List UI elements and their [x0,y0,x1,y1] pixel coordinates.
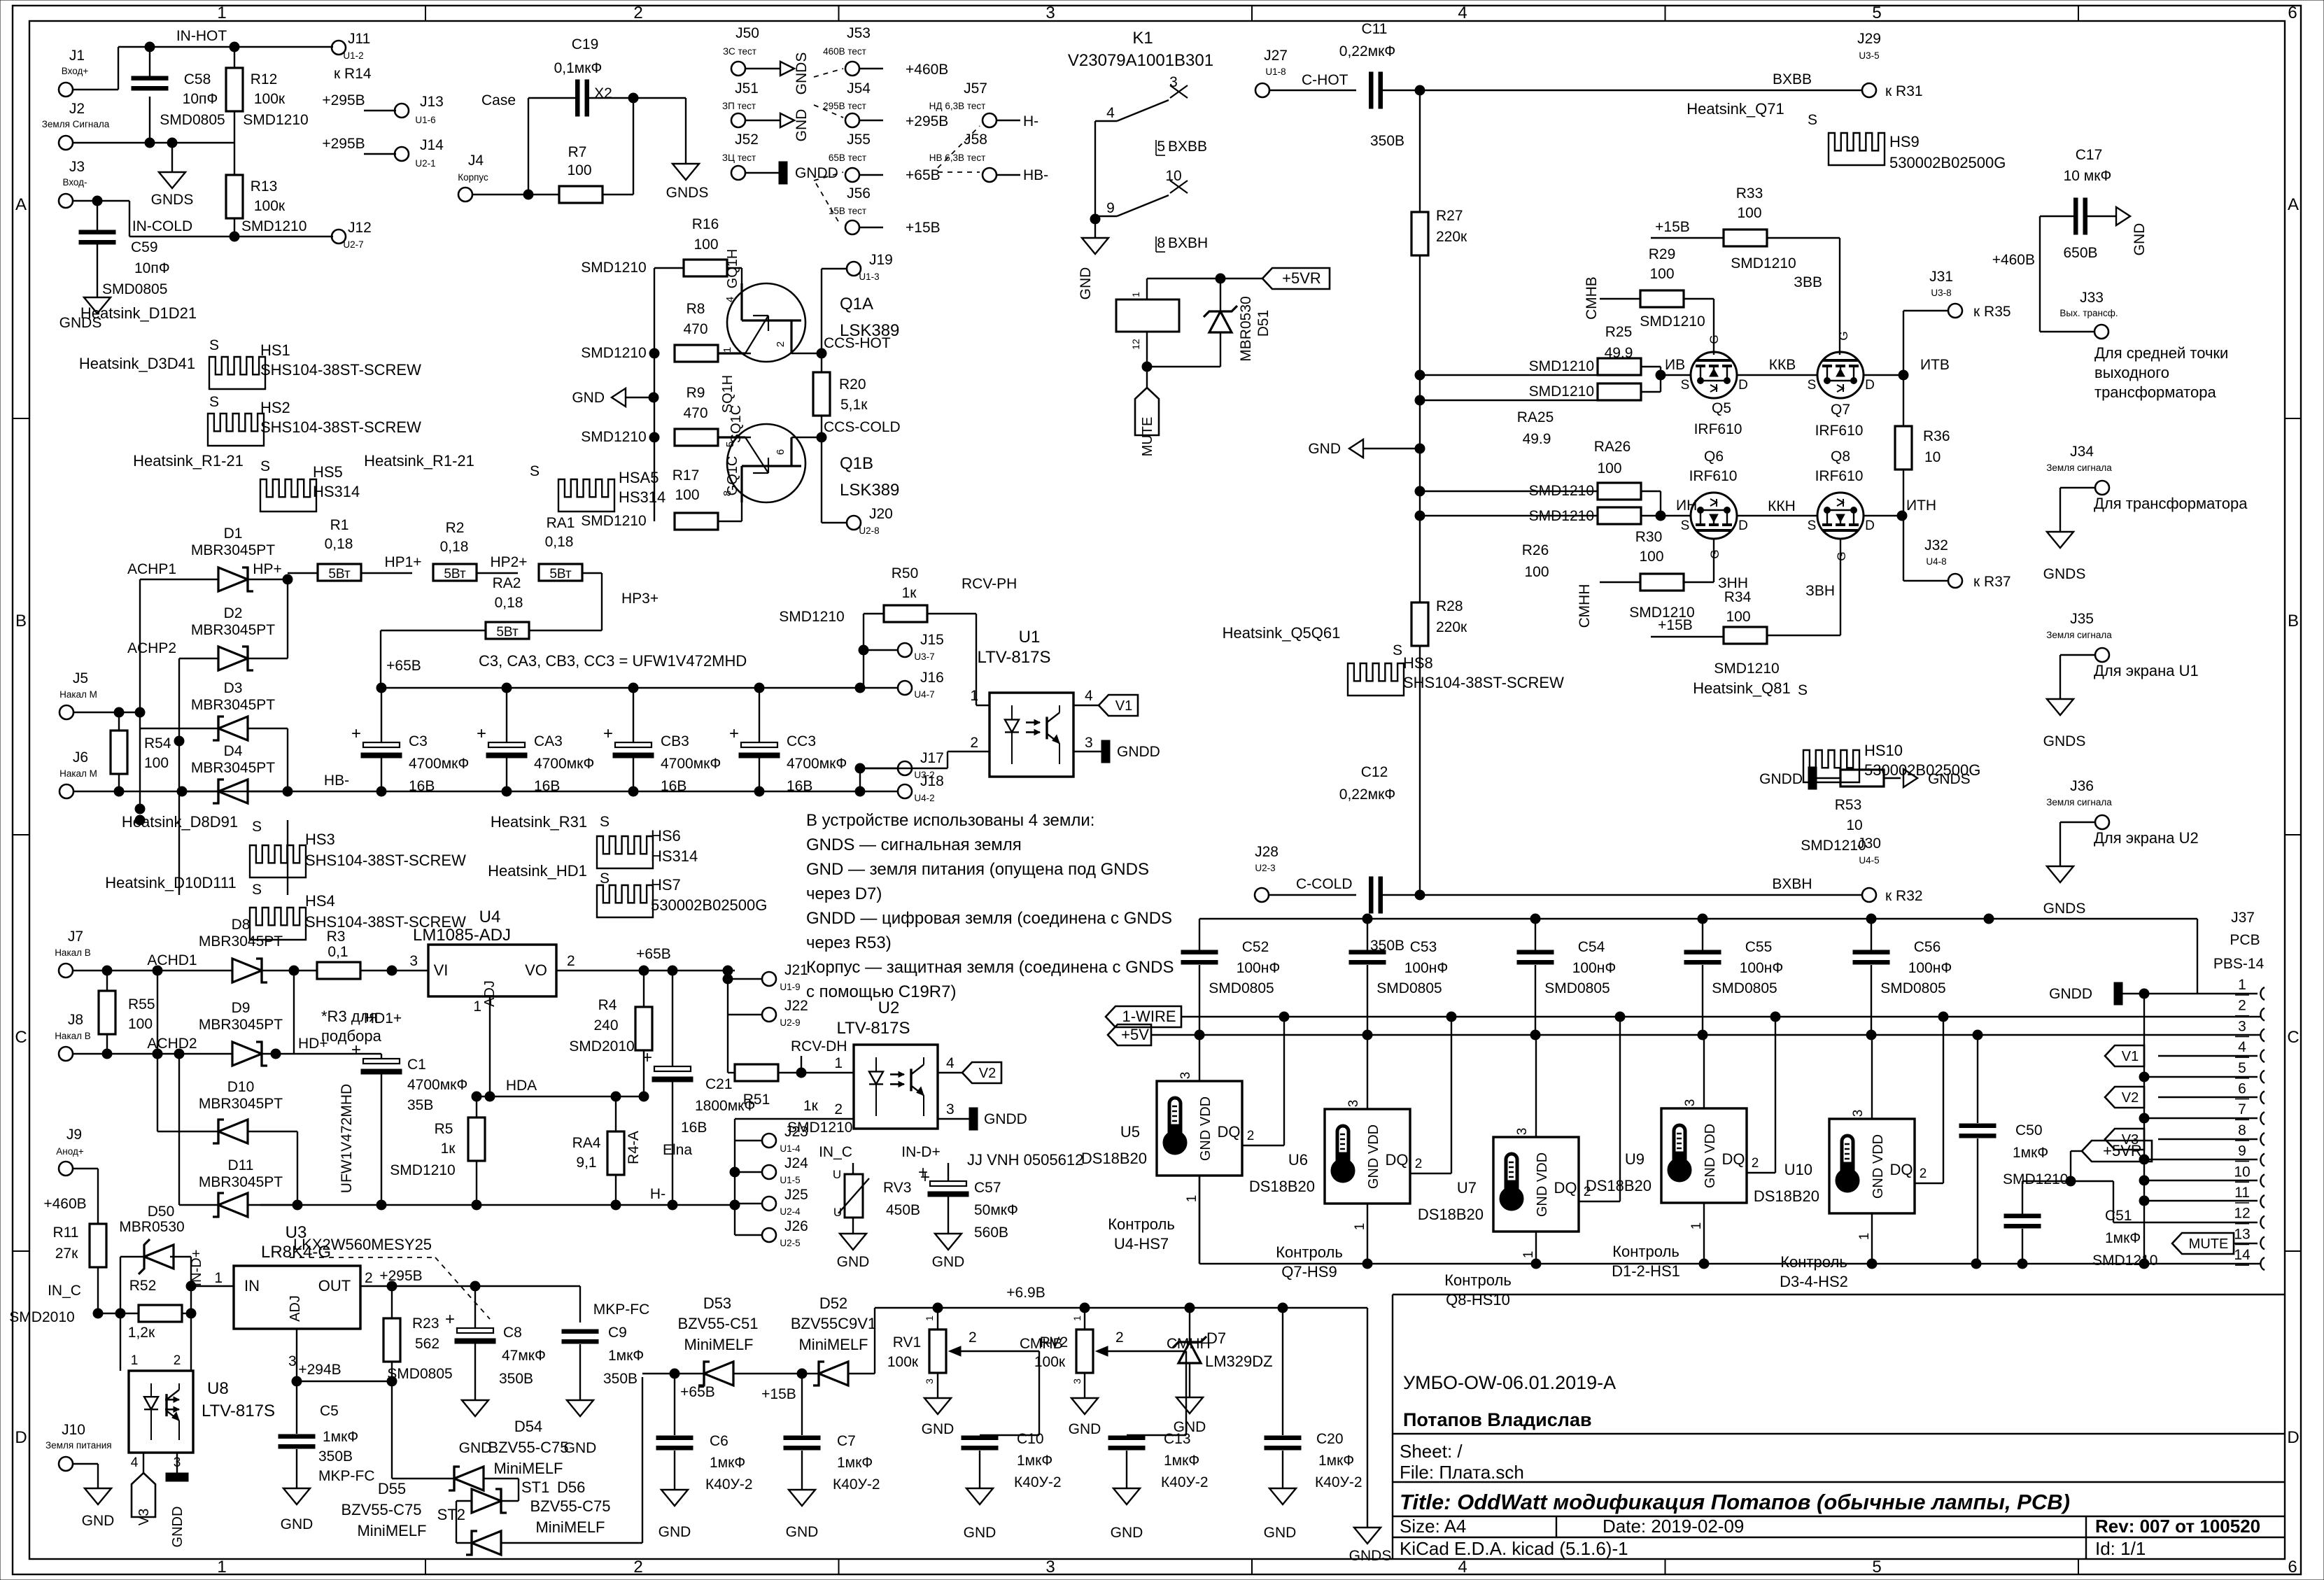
svg-text:UFW1V472MHD: UFW1V472MHD [339,1084,355,1193]
wire pin 7 [2144,1117,2258,1119]
svg-text:MBR0530: MBR0530 [119,1219,184,1235]
svg-text:16В: 16В [409,778,435,794]
svg-text:SHS104-38ST-SCREW: SHS104-38ST-SCREW [1403,674,1564,691]
svg-text:J18: J18 [920,773,944,789]
svg-text:4: 4 [1106,105,1115,121]
svg-text:4700мкФ: 4700мкФ [661,756,721,772]
svg-text:R16: R16 [692,216,719,232]
svg-text:MBR3045PT: MBR3045PT [199,933,283,950]
svg-text:U4-2: U4-2 [914,793,934,803]
resistor R55 [99,991,115,1034]
ground GND [924,1398,951,1414]
svg-text:BXBH: BXBH [1168,235,1208,251]
svg-text:SMD1210: SMD1210 [1529,508,1594,524]
varistor RV3 [845,1174,863,1218]
wire [120,1257,121,1313]
svg-text:Title: OddWatt модификация Пот: Title: OddWatt модификация Потапов (обыч… [1400,1490,2070,1514]
svg-text:СМНН: СМНН [1577,584,1593,628]
svg-text:D51: D51 [1255,310,1272,337]
svg-text:IRF610: IRF610 [1694,421,1742,437]
svg-text:SMD0805: SMD0805 [1880,980,1945,996]
svg-text:G: G [1707,334,1721,344]
resistor RA4 [607,1131,624,1175]
svg-text:Q8-HS10: Q8-HS10 [1446,1291,1510,1309]
svg-text:SMD1210: SMD1210 [581,429,646,445]
svg-text:49.9: 49.9 [1523,431,1551,447]
svg-text:+15В: +15В [1655,219,1690,235]
svg-text:ACHD2: ACHD2 [147,1036,197,1052]
svg-text:100к: 100к [1034,1354,1066,1370]
svg-text:4: 4 [946,1055,955,1071]
svg-text:RA4: RA4 [572,1135,601,1151]
wire bus [1419,449,1421,602]
transistor Q1A [727,283,805,362]
svg-text:+: + [729,724,739,743]
svg-text:J52: J52 [735,132,759,148]
svg-text:J6: J6 [73,749,88,766]
resistor R4 [635,1007,652,1050]
svg-text:GND: GND [659,1524,691,1540]
svg-text:1мкФ: 1мкФ [323,1429,358,1445]
ground GND [1071,1398,1098,1414]
svg-text:SMD1210: SMD1210 [1801,838,1866,854]
svg-text:J21: J21 [784,962,808,978]
svg-text:2: 2 [633,1558,642,1577]
diode bottom ST2 [472,1531,501,1555]
wire [860,687,898,689]
net flag V2 pin6 [2105,1087,2144,1108]
svg-text:100к: 100к [254,91,286,107]
svg-text:J4: J4 [468,153,484,169]
svg-text:НД 6,3В тест: НД 6,3В тест [929,101,986,111]
svg-text:47мкФ: 47мкФ [502,1348,546,1364]
optocoupler U1 [990,693,1073,777]
svg-text:D3: D3 [224,680,243,696]
svg-text:+460В: +460В [1992,252,2035,268]
svg-text:J16: J16 [920,670,944,686]
net flag V1 pin4 [2105,1045,2144,1066]
svg-text:CCS-COLD: CCS-COLD [824,419,901,435]
svg-text:GND VDD: GND VDD [1703,1124,1718,1188]
svg-text:BZV55-C75: BZV55-C75 [488,1439,569,1456]
wire BXBB [1420,90,1862,91]
svg-text:SMD0805: SMD0805 [1712,980,1777,996]
svg-text:IN-COLD: IN-COLD [132,218,192,234]
svg-text:GND: GND [1264,1525,1297,1541]
svg-text:SHS104-38ST-SCREW: SHS104-38ST-SCREW [260,418,421,436]
svg-text:Накал В: Накал В [55,1031,91,1041]
svg-text:5: 5 [1157,139,1165,155]
junction [1362,914,1372,924]
svg-text:GNDD: GNDD [1759,771,1803,787]
resistor R5 [468,1117,485,1161]
connector J24 [762,1165,776,1179]
svg-text:350В: 350В [1370,133,1404,149]
svg-text:Н-: Н- [650,1186,665,1202]
svg-text:MBR3045PT: MBR3045PT [191,760,275,776]
svg-text:D55: D55 [378,1480,406,1497]
svg-text:U2-5: U2-5 [780,1238,800,1248]
svg-text:SHS104-38ST-SCREW: SHS104-38ST-SCREW [305,852,466,869]
svg-text:Потапов Владислав: Потапов Владислав [1403,1409,1592,1430]
svg-text:LKX2W560MESY25: LKX2W560MESY25 [293,1236,432,1253]
svg-text:D9: D9 [232,1000,251,1016]
svg-text:R3: R3 [327,929,346,945]
svg-text:GNDS: GNDS [2043,733,2086,749]
wire GNDD top rail [1199,918,2197,919]
svg-text:Контроль: Контроль [1276,1243,1343,1261]
svg-text:SMD0805: SMD0805 [102,281,167,297]
svg-text:3: 3 [2238,1018,2246,1034]
svg-text:J14: J14 [420,137,444,153]
diode middle ST1 [472,1489,501,1513]
svg-text:GND VDD: GND VDD [1366,1124,1381,1189]
connector J22 [762,1008,776,1022]
svg-text:R54: R54 [144,735,171,752]
svg-text:GNDD — цифровая земля (соедине: GNDD — цифровая земля (соединена с GNDS [806,909,1172,928]
svg-text:350В: 350В [603,1371,638,1387]
svg-text:S: S [1681,519,1690,533]
svg-text:ADJ: ADJ [288,1295,303,1322]
svg-text:HS314: HS314 [313,483,360,500]
svg-text:D10: D10 [227,1079,255,1095]
capacitor C8 [474,1286,476,1328]
svg-text:C11: C11 [1362,21,1388,37]
svg-text:V23079A1001B301: V23079A1001B301 [1068,51,1213,70]
svg-text:C54: C54 [1578,939,1605,955]
svg-text:J57: J57 [964,80,987,97]
svg-text:SMD0805: SMD0805 [387,1366,452,1382]
wire 65B row [642,1373,704,1374]
ground GNDS [1354,1528,1381,1544]
svg-text:3: 3 [1683,1099,1698,1107]
svg-text:SMD2010: SMD2010 [9,1309,74,1325]
svg-text:+460В: +460В [906,62,948,78]
svg-text:DQ: DQ [1890,1161,1913,1178]
svg-text:+5V: +5V [1121,1026,1149,1043]
wire pin 5 [2144,1076,2258,1078]
dashed link [938,126,980,168]
svg-text:R5: R5 [435,1121,453,1137]
junction [1415,85,1425,95]
wire to J32 [1903,516,1904,581]
svg-text:HS5: HS5 [313,463,343,481]
svg-text:J22: J22 [784,998,808,1014]
svg-text:к R32: к R32 [1885,888,1923,904]
svg-text:к R31: к R31 [1885,83,1923,99]
svg-text:D: D [1865,378,1875,393]
svg-text:C1: C1 [407,1057,426,1073]
wire [1146,278,1148,299]
ground GND [1269,1488,1296,1504]
svg-text:R50: R50 [892,565,919,581]
junction 1wire [1279,1012,1289,1022]
svg-text:HP+: HP+ [253,561,281,577]
svg-text:BZV55C9V1: BZV55C9V1 [791,1315,876,1332]
svg-text:Накал М: Накал М [59,689,97,700]
resistor R25 [1598,358,1641,375]
svg-text:+: + [920,1168,930,1187]
svg-text:DQ: DQ [1218,1123,1241,1141]
svg-text:Вых. трансф.: Вых. трансф. [2059,308,2118,318]
svg-text:GND: GND [82,1513,115,1529]
capacitor C9 [562,1329,598,1334]
svg-text:U1-9: U1-9 [780,982,800,992]
wire riser [2143,994,2145,1264]
svg-text:GND: GND [1111,1525,1143,1541]
svg-text:12: 12 [1130,339,1141,350]
svg-text:16В: 16В [681,1120,707,1136]
svg-text:GND: GND [1078,267,1094,300]
svg-text:4: 4 [1458,1558,1467,1577]
ground GND [85,1488,111,1504]
svg-text:U1-3: U1-3 [859,271,879,282]
svg-text:C59: C59 [131,239,158,255]
svg-text:3: 3 [1071,1378,1083,1384]
svg-text:IN_C: IN_C [819,1144,852,1160]
junction [92,196,102,206]
svg-text:V3: V3 [136,1509,152,1525]
svg-text:DS18B20: DS18B20 [1249,1178,1315,1195]
svg-text:через R53): через R53) [806,933,892,952]
svg-text:ЗВН: ЗВН [1805,583,1835,599]
svg-text:Q1B: Q1B [840,454,873,473]
svg-text:D: D [1865,519,1875,533]
wire [73,142,234,143]
svg-text:U10: U10 [1784,1161,1812,1178]
svg-text:1мкФ: 1мкФ [2013,1145,2048,1161]
capacitor C10 [979,1434,980,1436]
svg-text:HP2+: HP2+ [490,554,527,570]
svg-text:100: 100 [1649,266,1674,282]
svg-text:470: 470 [683,321,707,337]
wire Q6 D [1737,515,1817,516]
svg-text:1: 1 [217,3,226,22]
svg-text:J8: J8 [68,1012,83,1028]
connector J16 [898,681,912,695]
ground GNDS [2047,699,2073,715]
net flag MUTE pin13 [2172,1233,2234,1254]
svg-text:LM329DZ: LM329DZ [1205,1353,1273,1370]
svg-text:MKP-FC: MKP-FC [593,1302,650,1318]
svg-text:J34: J34 [2070,444,2094,460]
wire to J20 [821,437,822,523]
svg-text:J3: J3 [69,159,85,175]
svg-text:C21: C21 [705,1076,733,1092]
svg-text:ACHP1: ACHP1 [127,561,176,577]
svg-text:1: 1 [721,347,733,353]
connector J12 [332,230,346,244]
svg-text:DS18B20: DS18B20 [1754,1187,1819,1205]
svg-text:J26: J26 [784,1218,808,1234]
wire to J19 [821,269,822,353]
svg-text:9: 9 [2238,1143,2246,1159]
svg-text:НВ-: НВ- [1023,167,1048,183]
svg-text:U1-4: U1-4 [780,1143,801,1154]
svg-text:Накал М: Накал М [59,768,97,779]
capacitor C59 [97,201,98,231]
svg-text:J12: J12 [348,220,372,236]
svg-text:File: Плата.sch: File: Плата.sch [1400,1462,1524,1483]
svg-text:5: 5 [1872,1558,1881,1577]
resistor R13 [226,175,243,218]
wire [859,768,861,791]
svg-text:R17: R17 [672,467,700,484]
connector J37 pin 1 [2260,987,2265,1000]
svg-text:1: 1 [1857,1233,1872,1241]
connector J37 pin 11 [2260,1195,2265,1208]
connector J23 [762,1134,776,1148]
svg-text:5: 5 [2238,1060,2246,1076]
svg-text:GND: GND [1069,1421,1101,1437]
dashed link [814,69,843,77]
svg-text:R9: R9 [686,385,705,401]
connector J20 [847,516,861,530]
svg-text:100: 100 [675,487,699,503]
svg-text:Н-: Н- [1023,113,1038,129]
svg-text:ККВ: ККВ [1769,357,1796,373]
svg-text:C-HOT: C-HOT [1302,72,1348,88]
svg-text:1к: 1к [902,585,917,601]
wire [139,579,141,809]
svg-text:GNDD: GNDD [2049,986,2092,1002]
connector J37 pin 9 [2260,1154,2265,1166]
wire [863,614,864,688]
svg-text:BXBB: BXBB [1773,71,1812,87]
svg-text:100: 100 [128,1016,153,1032]
svg-text:IRF610: IRF610 [1689,468,1738,484]
ground GNDS [84,297,111,313]
svg-text:1мкФ: 1мкФ [710,1455,745,1471]
svg-text:U2-9: U2-9 [780,1017,800,1028]
svg-text:GND: GND [922,1421,955,1437]
svg-text:+: + [445,1310,455,1329]
svg-text:U: U [833,1206,842,1219]
svg-text:J2: J2 [69,101,85,117]
svg-text:2: 2 [969,1329,977,1346]
svg-text:J24: J24 [784,1155,808,1171]
svg-text:S: S [252,882,262,898]
svg-text:4: 4 [1085,688,1093,704]
svg-text:R7: R7 [568,144,587,160]
resistor R30 [1640,574,1684,591]
output arrow GND [780,113,794,127]
svg-text:D2: D2 [224,605,243,621]
svg-text:HSA5: HSA5 [619,469,659,486]
svg-text:Id: 1/1: Id: 1/1 [2095,1538,2146,1559]
svg-text:+: + [351,1041,361,1059]
svg-text:Heatsink_Q5Q61: Heatsink_Q5Q61 [1223,624,1341,642]
svg-text:SMD1210: SMD1210 [1714,661,1779,677]
connector J37 pin 4 [2260,1050,2265,1062]
svg-text:U4-7: U4-7 [914,689,934,700]
wire GND bottom rail [1199,1176,1200,1264]
svg-text:J32: J32 [1924,537,1948,553]
capacitor C21 [672,971,673,1066]
svg-text:1: 1 [217,1558,226,1577]
svg-text:C53: C53 [1410,939,1437,955]
svg-text:ИВ: ИВ [1665,357,1685,373]
svg-text:SMD1210: SMD1210 [1529,383,1594,400]
svg-text:HS314: HS314 [651,847,698,865]
svg-text:100: 100 [693,237,718,253]
svg-text:RV2: RV2 [1040,1334,1068,1350]
resistor R27 [1411,212,1428,255]
net flag MUTE [1146,367,1148,388]
wire [1641,366,1661,367]
svg-text:R25: R25 [1605,324,1633,340]
svg-text:10: 10 [1165,168,1181,184]
svg-text:SMD1210: SMD1210 [241,218,307,234]
svg-text:Heatsink_HD1: Heatsink_HD1 [488,862,587,880]
svg-text:U6: U6 [1288,1151,1308,1169]
svg-text:IN-D+: IN-D+ [189,1250,204,1287]
connector J37 pin 3 [2260,1029,2265,1041]
svg-text:10: 10 [1846,817,1862,833]
svg-text:1: 1 [924,1316,935,1321]
svg-text:D7: D7 [1206,1329,1226,1347]
svg-text:C9: C9 [608,1325,627,1341]
junction [289,966,299,975]
svg-text:MKP-FC: MKP-FC [318,1468,375,1484]
wire [654,353,655,437]
svg-text:3: 3 [1085,735,1093,751]
svg-text:R34: R34 [1724,589,1752,605]
svg-text:GND VDD: GND VDD [1535,1152,1550,1217]
svg-text:2: 2 [633,3,642,22]
svg-text:530002B02500G: 530002B02500G [651,896,767,914]
ground GNDD [779,162,787,184]
output arrow GNDS [780,62,794,76]
svg-text:Heatsink_R31: Heatsink_R31 [491,813,587,831]
svg-text:5Вт: 5Вт [444,567,466,581]
svg-text:U4-5: U4-5 [1859,855,1879,866]
svg-text:450В: 450В [886,1202,920,1218]
svg-text:MBR3045PT: MBR3045PT [199,1096,283,1112]
svg-text:Земля сигнала: Земля сигнала [2046,463,2112,473]
svg-text:D11: D11 [228,1157,254,1173]
svg-text:К40У-2: К40У-2 [1315,1474,1362,1490]
svg-text:LM1085-ADJ: LM1085-ADJ [413,926,511,945]
svg-text:J50: J50 [735,25,759,41]
svg-text:J1: J1 [69,48,85,64]
svg-text:R12: R12 [251,71,278,87]
svg-text:Q7: Q7 [1831,402,1850,418]
svg-text:GNDS: GNDS [666,185,709,201]
svg-text:RA1: RA1 [547,515,575,531]
svg-text:1: 1 [2238,977,2246,993]
svg-text:HS1: HS1 [260,341,290,359]
connector J2 [59,136,73,150]
svg-text:R29: R29 [1649,246,1676,262]
svg-text:G: G [1837,331,1850,340]
svg-text:100нФ: 100нФ [1237,960,1281,976]
svg-text:C19: C19 [572,36,599,52]
svg-text:C12: C12 [1361,764,1388,780]
svg-text:GNDD: GNDD [170,1507,185,1548]
svg-text:J35: J35 [2070,611,2094,627]
svg-text:GNDS: GNDS [2043,566,2086,582]
connector J37 pin 2 [2260,1008,2265,1021]
wire gate Q8 [1840,538,1841,635]
connector J25 [762,1197,776,1211]
svg-text:+65В: +65В [906,167,941,183]
svg-text:S: S [1808,112,1817,128]
svg-text:7: 7 [2238,1101,2246,1117]
svg-text:Q7-HS9: Q7-HS9 [1281,1263,1337,1281]
svg-text:C57: C57 [974,1180,1001,1196]
svg-text:14: 14 [2234,1247,2251,1263]
